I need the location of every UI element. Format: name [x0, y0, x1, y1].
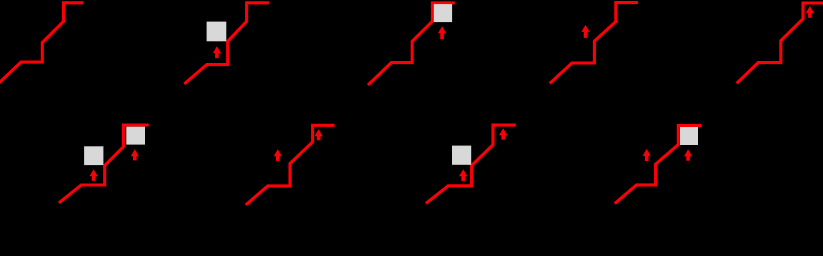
staircase path 9 (bottom row, rightmost): [615, 126, 702, 204]
up arrow A of panel 9: [643, 149, 651, 161]
staircase path 6 (bottom row, leftmost): [59, 125, 149, 203]
up arrow A of panel 7: [274, 149, 282, 161]
gray box of panel 8: [452, 146, 471, 165]
up arrow of panel 2: [213, 46, 221, 58]
up arrow B of panel 8: [499, 128, 507, 139]
gray box of panel 9: [680, 127, 698, 145]
up arrow of panel 5: [806, 6, 814, 18]
up arrow A of panel 8: [459, 169, 467, 181]
up arrow A of panel 6: [90, 169, 98, 181]
staircase path 5 (top row, rightmost, clipped at right edge): [737, 3, 823, 83]
up arrow B of panel 9: [684, 149, 692, 160]
staircase path 4: [550, 3, 638, 84]
up arrow B of panel 6: [131, 149, 139, 160]
up arrow of panel 4: [581, 25, 589, 38]
staircase path 7: [246, 125, 335, 205]
up arrow B of panel 7: [315, 129, 323, 140]
gray box B of panel 6: [126, 127, 145, 145]
gray box A of panel 6: [84, 146, 103, 165]
staircase path 8: [426, 125, 516, 203]
up arrow of panel 3: [438, 26, 446, 39]
staircase path 1 (top row, leftmost): [0, 3, 84, 84]
gray box of panel 2: [207, 22, 227, 42]
staircase path 3: [368, 3, 455, 85]
staircase path 2: [184, 3, 269, 84]
gray box of panel 3: [434, 4, 452, 22]
